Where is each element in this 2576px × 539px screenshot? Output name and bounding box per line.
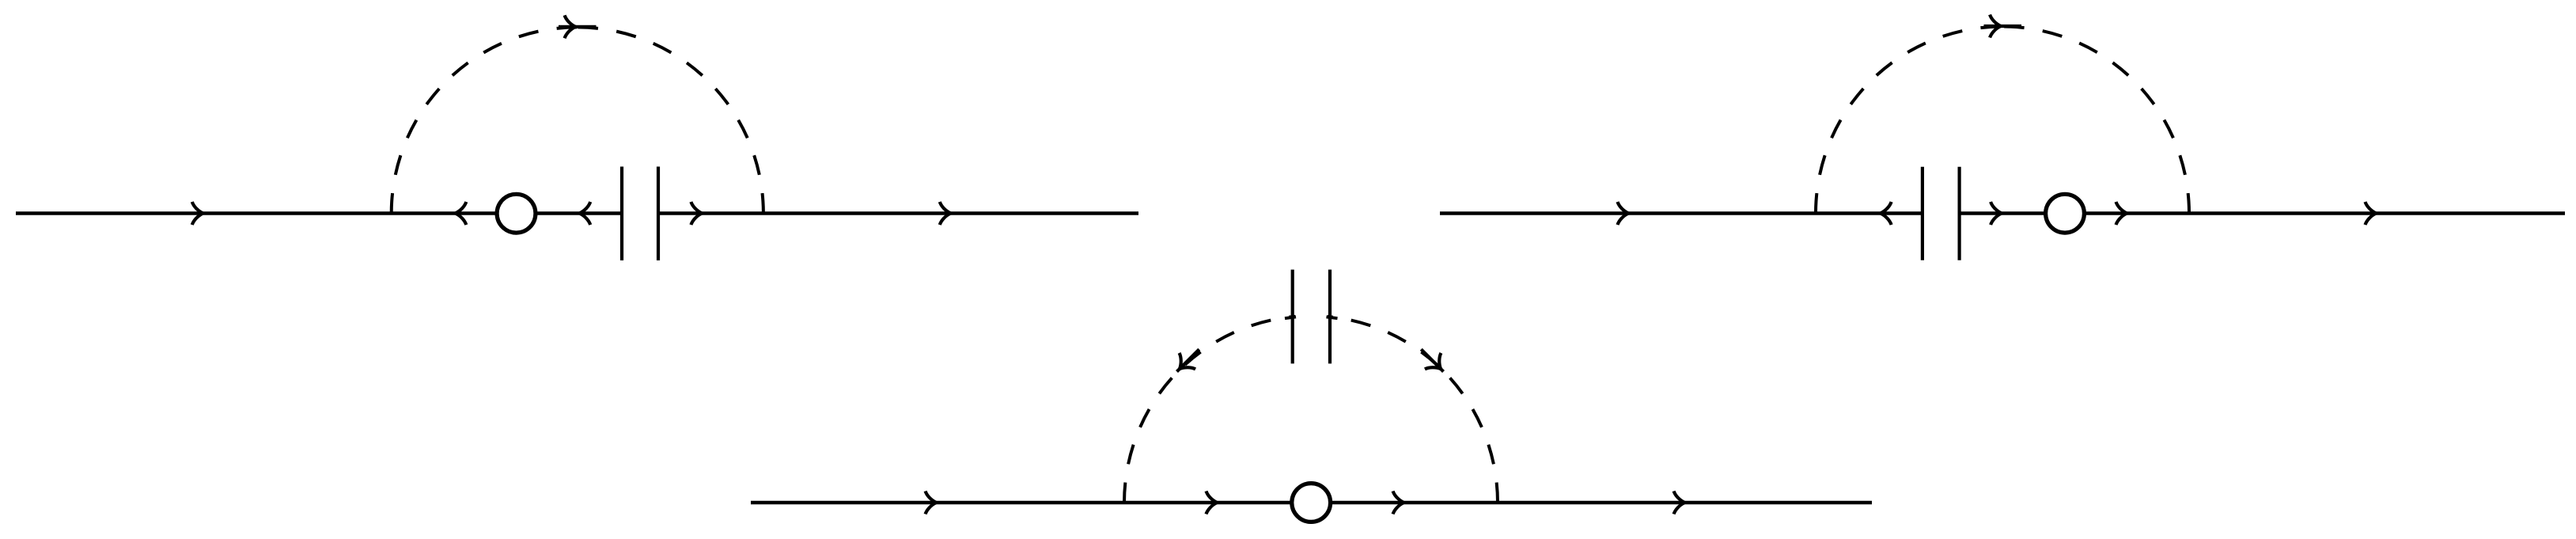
arc dash stub crossing left cut bar, diagram c (1285, 317, 1296, 318)
arrow: internal line arrow pointing left before cut, diagram b (1881, 202, 1892, 225)
wire: fermion line right segment of diagram a (657, 211, 1139, 214)
wire: fermion line right segment of diagram b (1959, 211, 2565, 214)
arrow dash at arc top, diagram b (1984, 25, 2022, 28)
white mask between cut bars at arc top, diagram c (1295, 306, 1328, 328)
arrow: internal line arrow pointing right, diagram c (1207, 492, 1218, 514)
cut bar right at arc top, diagram c (1328, 270, 1332, 364)
arrow: internal line arrow pointing left, diagram a (455, 202, 466, 225)
arrow: meson flow arrow on right arc pointing down-right, diagram c (1425, 353, 1449, 377)
arrow: internal line arrow pointing right after cut, diagram a (691, 202, 702, 225)
vertex circle (counterterm), diagram a (497, 194, 536, 233)
cut bar right, diagram b (1958, 167, 1961, 260)
arrow: outgoing momentum arrow, diagram b (2366, 202, 2377, 225)
dashed meson arc right half, diagram c (1311, 316, 1498, 503)
dashed meson arc left half, diagram b (1816, 27, 2002, 214)
dashed meson arc left half, diagram a (392, 27, 578, 213)
arrow: outgoing momentum arrow, diagram c (1674, 492, 1685, 514)
dashed meson arc right half, diagram b (2002, 27, 2189, 214)
arrow dash on left arc, diagram c (1177, 349, 1199, 371)
arrow: meson flow arrow on left arc pointing down-left, diagram c (1172, 353, 1195, 377)
arrow dash on right arc, diagram c (1421, 349, 1443, 371)
arrow: outgoing momentum arrow, diagram a (940, 202, 951, 225)
cut bar left at arc top, diagram c (1291, 270, 1294, 364)
cut bar left, diagram a (620, 167, 623, 261)
wire: external fermion line left segment of diagram a (16, 211, 623, 214)
arrow: incoming momentum arrow, diagram a (192, 202, 203, 225)
arrow: internal line arrow pointing right after cut, diagram b (1991, 202, 2002, 225)
dashed meson arc right half, diagram a (578, 27, 763, 213)
vertex circle (counterterm), diagram c (1292, 484, 1331, 522)
arrow dash at arc top, diagram a (559, 25, 597, 28)
cut bar right, diagram a (657, 167, 660, 261)
arrow: internal line arrow pointing right after vertex, diagram b (2116, 202, 2127, 225)
arc dash stub crossing right cut bar, diagram c (1327, 317, 1338, 318)
vertex circle (counterterm), diagram b (2046, 194, 2085, 233)
arrow: internal line arrow pointing left before cut, diagram a (579, 202, 590, 225)
arrow: meson flow arrow at arc top, diagram b (1990, 15, 2001, 38)
arrow: internal line arrow pointing right after vertex, diagram c (1393, 492, 1404, 514)
dashed meson arc left half, diagram c (1124, 316, 1311, 503)
wire: fermion line of diagram c (751, 501, 1872, 504)
arrow: meson flow arrow at arc top, diagram a (565, 15, 576, 38)
wire: external fermion line left segment of diagram b (1440, 211, 1923, 214)
cut bar left, diagram b (1921, 167, 1924, 260)
arrow: incoming momentum arrow, diagram b (1617, 202, 1628, 225)
arrow: incoming momentum arrow, diagram c (926, 492, 937, 514)
